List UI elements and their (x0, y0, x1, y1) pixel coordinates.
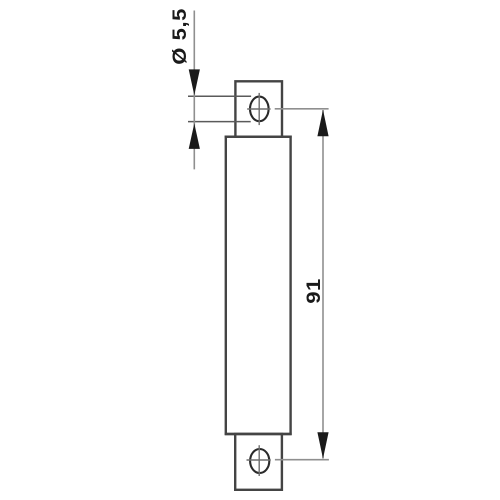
top mounting tab (235, 81, 282, 136)
left dimension line (193, 11, 195, 170)
top leader line to dimension (275, 108, 329, 110)
left dimension up arrow (189, 123, 200, 148)
right dimension down arrow (317, 432, 328, 458)
svg-text:Ø 5,5: Ø 5,5 (169, 8, 190, 65)
svg-text:91: 91 (303, 278, 324, 304)
body top edge over tab (225, 135, 292, 137)
diameter extension line lower (188, 121, 251, 123)
left dimension down arrow (189, 69, 200, 95)
diameter extension line upper (188, 95, 251, 97)
right dimension up arrow (317, 110, 328, 136)
right dimension line 91 (322, 110, 324, 459)
body rectangle (226, 137, 291, 434)
top hole crosshair horizontal (247, 108, 270, 110)
bottom hole ellipse (250, 449, 269, 473)
body bottom edge over tab (225, 433, 292, 435)
bottom hole crosshair horizontal (247, 459, 271, 461)
bottom leader line to dimension (275, 459, 329, 461)
top hole ellipse (250, 97, 269, 122)
bottom hole crosshair vertical (258, 445, 260, 476)
bottom mounting tab (235, 434, 282, 490)
top hole crosshair vertical (258, 93, 260, 125)
